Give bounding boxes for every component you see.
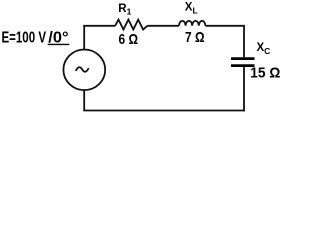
wire top-left vertical: [83, 26, 85, 50]
svg-text:6 Ω: 6 Ω: [119, 31, 139, 48]
svg-text:7 Ω: 7 Ω: [185, 29, 205, 46]
wire bottom-left vertical stub: [83, 90, 85, 111]
wire right vertical lower: [243, 67, 245, 111]
wire right vertical upper: [243, 26, 245, 58]
capacitor XC top plate: [231, 57, 255, 60]
wire inductor to top-right corner: [205, 25, 245, 27]
wire between resistor and inductor: [147, 25, 179, 27]
AC source circle: [63, 50, 105, 91]
AC source sine wave: [76, 67, 89, 71]
underline of angle notation: [48, 43, 70, 45]
wire top left segment: [83, 25, 115, 27]
capacitor XC bottom plate: [231, 64, 255, 67]
inductor XL humps: [179, 21, 205, 26]
svg-text:E=100 V: E=100 V: [2, 30, 47, 47]
svg-text:15 Ω: 15 Ω: [250, 65, 280, 82]
wire bottom: [83, 110, 245, 112]
resistor R1 zigzag: [115, 20, 147, 30]
